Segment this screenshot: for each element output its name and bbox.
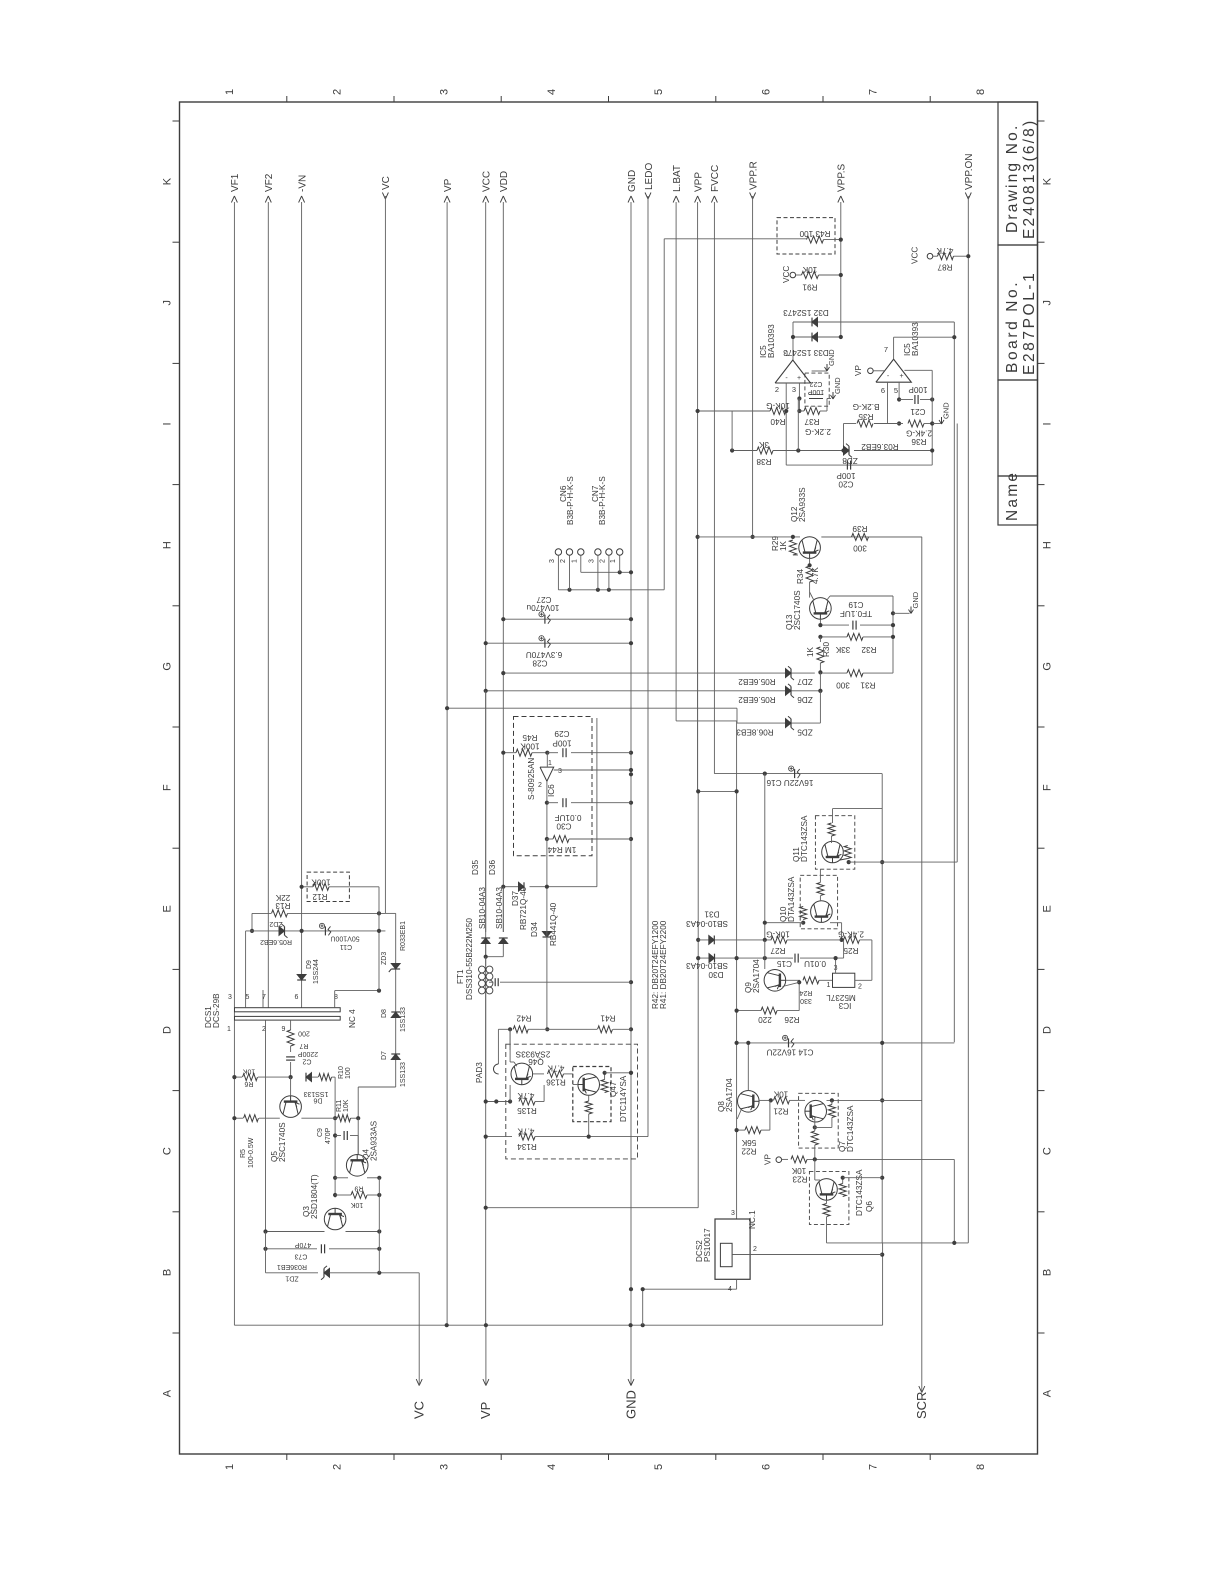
- svg-text:R5: R5: [240, 1149, 247, 1158]
- svg-text:10V470u: 10V470u: [526, 603, 559, 612]
- svg-text:3: 3: [731, 1210, 735, 1217]
- svg-text:5: 5: [894, 386, 898, 395]
- svg-text:SB10-04A3: SB10-04A3: [686, 919, 728, 928]
- svg-text:D31: D31: [704, 910, 719, 919]
- svg-text:50V100U: 50V100U: [330, 935, 359, 942]
- svg-text:220: 220: [758, 1015, 772, 1024]
- svg-text:2: 2: [560, 559, 567, 563]
- svg-text:F: F: [1042, 784, 1054, 791]
- svg-text:300: 300: [853, 544, 867, 553]
- svg-text:4: 4: [728, 1286, 732, 1293]
- svg-text:4.7K: 4.7K: [547, 1064, 564, 1073]
- svg-text:7: 7: [868, 89, 880, 95]
- svg-text:D9: D9: [306, 960, 313, 969]
- svg-text:1SS133: 1SS133: [400, 1062, 407, 1087]
- svg-text:D: D: [162, 1026, 174, 1034]
- svg-text:200: 200: [298, 1030, 310, 1037]
- svg-text:ZD6: ZD6: [797, 695, 813, 704]
- svg-text:NC 4: NC 4: [348, 1009, 357, 1028]
- svg-text:R25: R25: [843, 946, 858, 955]
- svg-text:1K: 1K: [779, 540, 788, 551]
- svg-text:E240813(6/8): E240813(6/8): [1021, 119, 1038, 239]
- svg-text:G: G: [1042, 662, 1054, 671]
- svg-text:R87: R87: [937, 263, 952, 272]
- svg-text:VPP.S: VPP.S: [837, 164, 848, 192]
- svg-text:R37: R37: [804, 417, 819, 426]
- svg-text:Q47: Q47: [609, 1081, 618, 1097]
- svg-text:VF1: VF1: [230, 173, 241, 192]
- svg-text:I: I: [1042, 422, 1054, 425]
- svg-text:3: 3: [558, 768, 562, 775]
- svg-text:R03.6EB2: R03.6EB2: [861, 442, 899, 451]
- svg-text:C22: C22: [809, 380, 822, 387]
- svg-text:C30: C30: [556, 822, 571, 831]
- svg-text:R12: R12: [312, 892, 327, 901]
- svg-text:16V22U C16: 16V22U C16: [766, 778, 813, 787]
- svg-text:1: 1: [224, 1464, 236, 1470]
- svg-text:D7: D7: [381, 1051, 388, 1060]
- svg-text:R45: R45: [522, 733, 537, 742]
- svg-text:100: 100: [345, 1067, 352, 1079]
- svg-text:R38: R38: [756, 457, 771, 466]
- svg-text:C20: C20: [838, 480, 853, 489]
- svg-text:C11: C11: [340, 943, 352, 950]
- svg-text:K: K: [162, 177, 174, 185]
- svg-text:R26: R26: [784, 1015, 799, 1024]
- svg-text:2.4K-G: 2.4K-G: [838, 930, 864, 939]
- svg-text:1: 1: [571, 559, 578, 563]
- svg-text:B: B: [1042, 1269, 1054, 1276]
- svg-text:VPP.R: VPP.R: [748, 161, 759, 190]
- svg-text:C14 16V22U: C14 16V22U: [766, 1048, 813, 1057]
- svg-text:R32: R32: [861, 645, 876, 654]
- svg-text:IC3: IC3: [838, 1001, 851, 1010]
- svg-text:2: 2: [599, 559, 606, 563]
- svg-text:C15: C15: [777, 959, 792, 968]
- svg-text:R27: R27: [770, 946, 785, 955]
- svg-text:VPP.ON: VPP.ON: [964, 154, 975, 191]
- svg-text:VP: VP: [854, 365, 863, 376]
- svg-text:DTC143ZSA: DTC143ZSA: [855, 1169, 864, 1216]
- svg-text:R22: R22: [741, 1147, 756, 1156]
- svg-text:E287POL-1: E287POL-1: [1021, 271, 1038, 375]
- svg-text:LEDO: LEDO: [644, 163, 655, 190]
- svg-text:8: 8: [975, 89, 987, 95]
- svg-text:E: E: [1042, 905, 1054, 912]
- svg-text:4.7K: 4.7K: [936, 246, 953, 255]
- svg-text:VCC: VCC: [911, 247, 920, 264]
- svg-text:+: +: [797, 375, 801, 382]
- svg-text:2SC1740S: 2SC1740S: [793, 590, 802, 630]
- svg-text:2SC1740S: 2SC1740S: [278, 1122, 287, 1162]
- svg-text:D30: D30: [708, 970, 723, 979]
- svg-text:C9: C9: [317, 1128, 324, 1137]
- svg-text:2SD1804(T): 2SD1804(T): [310, 1174, 319, 1219]
- svg-text:L.BAT: L.BAT: [672, 165, 683, 192]
- svg-text:D35: D35: [471, 860, 480, 875]
- svg-text:2: 2: [753, 1246, 757, 1253]
- svg-text:B3B-P-H-K-S: B3B-P-H-K-S: [598, 476, 607, 525]
- svg-text:4.7K: 4.7K: [811, 567, 820, 584]
- svg-text:100P: 100P: [908, 385, 928, 394]
- svg-text:470P: 470P: [325, 1127, 332, 1144]
- svg-text:0.01U: 0.01U: [804, 959, 826, 968]
- svg-text:M5237L: M5237L: [826, 993, 856, 1002]
- svg-text:7: 7: [884, 345, 888, 354]
- svg-text:VP: VP: [764, 1154, 773, 1165]
- svg-text:C21: C21: [910, 407, 925, 416]
- svg-text:300: 300: [836, 681, 850, 690]
- svg-text:1: 1: [827, 982, 831, 989]
- svg-text:FT1: FT1: [456, 969, 465, 984]
- svg-text:D8: D8: [381, 1009, 388, 1018]
- svg-text:100P: 100P: [808, 388, 825, 395]
- svg-text:ZD8: ZD8: [842, 456, 858, 465]
- svg-text:R41: DB20T24EFY2200: R41: DB20T24EFY2200: [659, 920, 668, 1009]
- svg-text:DTA143ZSA: DTA143ZSA: [787, 876, 796, 922]
- svg-text:R05.6EB2: R05.6EB2: [738, 677, 776, 686]
- svg-text:1SS244: 1SS244: [313, 959, 320, 984]
- svg-text:4.7K: 4.7K: [517, 1127, 534, 1136]
- svg-text:56K: 56K: [741, 1138, 756, 1147]
- svg-text:R036EB1: R036EB1: [277, 1263, 307, 1270]
- svg-text:1SS133: 1SS133: [303, 1090, 328, 1097]
- svg-text:100P: 100P: [552, 739, 572, 748]
- svg-text:FVCC: FVCC: [710, 165, 721, 192]
- svg-text:7: 7: [868, 1464, 880, 1470]
- svg-text:1: 1: [785, 349, 789, 358]
- svg-text:Q6: Q6: [865, 1201, 874, 1212]
- svg-text:330: 330: [800, 997, 812, 1004]
- svg-text:D33 1S2473: D33 1S2473: [783, 348, 829, 357]
- svg-text:VC: VC: [381, 176, 392, 190]
- svg-text:R24: R24: [799, 989, 812, 996]
- svg-text:RB441Q-40: RB441Q-40: [549, 902, 558, 946]
- svg-text:GND: GND: [827, 349, 836, 366]
- svg-text:D: D: [1042, 1026, 1054, 1034]
- svg-text:PAD3: PAD3: [475, 1062, 484, 1083]
- svg-text:SB10-04A3: SB10-04A3: [495, 887, 504, 929]
- svg-text:R05.6EB2: R05.6EB2: [738, 695, 776, 704]
- svg-text:R9: R9: [354, 1185, 363, 1192]
- svg-text:C27: C27: [536, 595, 551, 604]
- svg-text:10K-G: 10K-G: [766, 930, 790, 939]
- svg-text:ZD7: ZD7: [797, 677, 813, 686]
- svg-text:R134: R134: [517, 1142, 537, 1151]
- svg-text:R43 100: R43 100: [799, 229, 830, 238]
- svg-text:4: 4: [546, 89, 558, 95]
- svg-text:3: 3: [439, 1464, 451, 1470]
- svg-text:4.7K: 4.7K: [517, 1091, 534, 1100]
- svg-text:100P: 100P: [836, 471, 856, 480]
- svg-text:B3B-P-H-K-S: B3B-P-H-K-S: [566, 476, 575, 525]
- svg-text:R23: R23: [792, 1175, 807, 1184]
- svg-text:VDD: VDD: [499, 171, 510, 192]
- svg-text:R6: R6: [244, 1080, 253, 1087]
- svg-text:VP: VP: [478, 1402, 493, 1419]
- svg-text:6: 6: [760, 89, 772, 95]
- svg-text:2.2K-G: 2.2K-G: [805, 427, 831, 436]
- svg-text:A: A: [162, 1389, 174, 1397]
- svg-text:DTC143ZSA: DTC143ZSA: [800, 815, 809, 862]
- svg-text:I: I: [162, 422, 174, 425]
- svg-text:1: 1: [224, 89, 236, 95]
- svg-text:2SA1704: 2SA1704: [725, 1078, 734, 1112]
- svg-text:2SA1704: 2SA1704: [752, 959, 761, 993]
- svg-text:C2: C2: [302, 1058, 311, 1065]
- svg-text:NC.1: NC.1: [748, 1210, 757, 1229]
- svg-text:2.4K-G: 2.4K-G: [906, 429, 932, 438]
- svg-text:R35: R35: [858, 412, 873, 421]
- svg-text:5: 5: [653, 89, 665, 95]
- svg-text:3: 3: [228, 994, 232, 1001]
- svg-text:R40: R40: [770, 417, 785, 426]
- svg-text:R41: R41: [600, 1014, 615, 1023]
- svg-text:G: G: [162, 662, 174, 671]
- svg-text:6: 6: [881, 386, 885, 395]
- svg-text:22K: 22K: [275, 893, 290, 902]
- svg-text:BA10393: BA10393: [911, 322, 920, 356]
- svg-text:10K-G: 10K-G: [766, 401, 790, 410]
- svg-text:RB721Q-40: RB721Q-40: [519, 886, 528, 930]
- svg-text:1M R44: 1M R44: [547, 845, 576, 854]
- svg-text:SB10-04A3: SB10-04A3: [686, 961, 728, 970]
- svg-text:R34: R34: [796, 569, 805, 584]
- svg-text:5: 5: [653, 1464, 665, 1470]
- svg-text:VPP: VPP: [693, 172, 704, 192]
- svg-text:C28: C28: [532, 659, 547, 668]
- svg-text:DTC143ZSA: DTC143ZSA: [846, 1105, 855, 1152]
- svg-text:-VN: -VN: [297, 175, 308, 192]
- svg-text:8: 8: [975, 1464, 987, 1470]
- svg-text:470P: 470P: [295, 1241, 312, 1248]
- svg-text:1SS133: 1SS133: [400, 1007, 407, 1032]
- svg-text:6: 6: [295, 994, 299, 1001]
- svg-text:ZD2: ZD2: [269, 920, 282, 927]
- svg-text:Drawing No.: Drawing No.: [1004, 124, 1021, 233]
- svg-text:R10: R10: [338, 1066, 345, 1079]
- svg-text:J: J: [1042, 300, 1054, 306]
- svg-text:A: A: [1042, 1389, 1054, 1397]
- svg-text:R033EB1: R033EB1: [400, 921, 407, 951]
- svg-text:IC6: IC6: [547, 784, 556, 797]
- svg-text:6: 6: [760, 1464, 772, 1470]
- svg-text:0.01UF: 0.01UF: [555, 813, 582, 822]
- svg-text:10K: 10K: [791, 1166, 806, 1175]
- svg-text:R13: R13: [275, 901, 290, 910]
- svg-text:R21: R21: [773, 1107, 788, 1116]
- svg-text:C29: C29: [554, 729, 569, 738]
- svg-text:J: J: [162, 300, 174, 306]
- svg-text:5: 5: [246, 994, 250, 1001]
- svg-text:R11: R11: [336, 1100, 343, 1112]
- svg-text:10K: 10K: [343, 1099, 350, 1112]
- svg-text:100-0.5W: 100-0.5W: [248, 1137, 255, 1168]
- svg-text:2SA933AS: 2SA933AS: [370, 1120, 379, 1161]
- svg-text:GND: GND: [911, 591, 920, 608]
- svg-text:DTC114YSA: DTC114YSA: [619, 1075, 628, 1122]
- svg-text:2200P: 2200P: [298, 1050, 319, 1057]
- svg-text:S-80925AN: S-80925AN: [527, 758, 536, 800]
- svg-text:100K: 100K: [311, 878, 331, 887]
- svg-text:C73: C73: [294, 1253, 307, 1260]
- svg-text:1: 1: [610, 559, 617, 563]
- svg-text:2: 2: [331, 1464, 343, 1470]
- svg-text:1: 1: [548, 760, 552, 767]
- svg-text:D6: D6: [313, 1097, 322, 1104]
- svg-text:1K: 1K: [806, 646, 815, 657]
- svg-text:R39: R39: [852, 524, 867, 533]
- svg-text:1: 1: [227, 1026, 231, 1033]
- svg-text:ZD3: ZD3: [381, 952, 388, 965]
- svg-text:F: F: [162, 784, 174, 791]
- svg-text:ZD1: ZD1: [285, 1275, 298, 1282]
- svg-text:VCC: VCC: [782, 266, 791, 283]
- svg-text:2SA933S: 2SA933S: [798, 487, 807, 522]
- svg-text:VCC: VCC: [482, 171, 493, 192]
- svg-text:Name: Name: [1004, 471, 1021, 521]
- svg-text:GND: GND: [942, 402, 951, 419]
- svg-text:2: 2: [331, 89, 343, 95]
- svg-text:10K: 10K: [242, 1068, 255, 1075]
- svg-text:C19: C19: [848, 600, 863, 609]
- svg-text:H: H: [162, 541, 174, 549]
- svg-text:3: 3: [588, 559, 595, 563]
- svg-text:R42: R42: [516, 1014, 531, 1023]
- svg-text:D36: D36: [488, 860, 497, 875]
- svg-text:TF0.1UF: TF0.1UF: [840, 609, 872, 618]
- svg-text:VC: VC: [412, 1401, 427, 1419]
- svg-text:R136: R136: [546, 1078, 566, 1087]
- svg-text:2: 2: [858, 984, 862, 991]
- svg-text:R30: R30: [822, 642, 831, 657]
- svg-text:D32 1S2473: D32 1S2473: [783, 308, 829, 317]
- svg-text:3: 3: [549, 559, 556, 563]
- svg-text:SCR: SCR: [914, 1392, 929, 1419]
- svg-text:VP: VP: [443, 178, 454, 192]
- svg-text:9: 9: [282, 1026, 286, 1033]
- svg-text:ZD5: ZD5: [797, 728, 813, 737]
- svg-text:+: +: [899, 373, 903, 380]
- svg-text:GND: GND: [833, 377, 842, 394]
- svg-text:3: 3: [439, 89, 451, 95]
- svg-text:10K: 10K: [350, 1201, 363, 1208]
- svg-text:R36: R36: [911, 437, 926, 446]
- svg-text:C: C: [162, 1147, 174, 1155]
- svg-text:BA10393: BA10393: [767, 324, 776, 358]
- svg-text:R7: R7: [299, 1042, 308, 1049]
- svg-text:DCS-29B: DCS-29B: [212, 993, 221, 1028]
- svg-text:10K: 10K: [773, 1090, 788, 1099]
- svg-text:R31: R31: [860, 681, 875, 690]
- svg-text:6.3V470U: 6.3V470U: [526, 650, 563, 659]
- svg-text:E: E: [162, 905, 174, 912]
- svg-text:3: 3: [792, 385, 796, 394]
- svg-text:D34: D34: [530, 922, 539, 937]
- svg-text:VF2: VF2: [264, 173, 275, 192]
- svg-text:H: H: [1042, 541, 1054, 549]
- svg-text:Q46: Q46: [528, 1057, 544, 1066]
- svg-text:B.2K-G: B.2K-G: [853, 402, 880, 411]
- svg-text:Board No.: Board No.: [1004, 280, 1021, 373]
- svg-text:GND: GND: [623, 1390, 638, 1419]
- svg-text:2: 2: [538, 782, 542, 789]
- svg-text:R91: R91: [802, 283, 817, 292]
- svg-text:B: B: [162, 1269, 174, 1276]
- svg-text:4: 4: [546, 1464, 558, 1470]
- svg-text:R06.8EB3: R06.8EB3: [736, 728, 774, 737]
- svg-text:PS10017: PS10017: [703, 1228, 712, 1262]
- svg-text:R05.6EB2: R05.6EB2: [260, 938, 292, 945]
- svg-text:3K: 3K: [758, 440, 769, 449]
- svg-text:C: C: [1042, 1147, 1054, 1155]
- svg-text:33K: 33K: [835, 645, 850, 654]
- svg-text:DSS310-55B222M250: DSS310-55B222M250: [465, 918, 474, 1000]
- svg-text:K: K: [1042, 177, 1054, 185]
- svg-text:GND: GND: [627, 170, 638, 192]
- svg-text:100K: 100K: [520, 742, 540, 751]
- svg-text:10K: 10K: [802, 265, 817, 274]
- svg-text:R135: R135: [517, 1106, 537, 1115]
- svg-text:2: 2: [775, 385, 779, 394]
